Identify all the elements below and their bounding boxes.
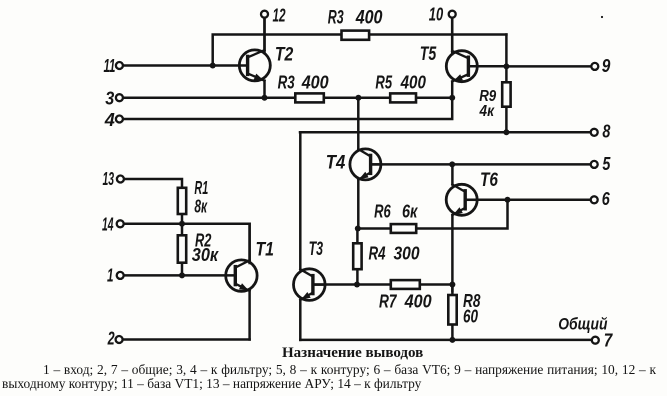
svg-text:5: 5 xyxy=(602,154,611,174)
svg-text:11: 11 xyxy=(104,56,116,76)
svg-text:3: 3 xyxy=(105,89,114,109)
svg-text:12: 12 xyxy=(273,5,286,25)
svg-text:60: 60 xyxy=(463,307,478,327)
svg-text:300: 300 xyxy=(394,244,420,264)
svg-text:400: 400 xyxy=(301,72,329,92)
svg-text:R5: R5 xyxy=(375,72,392,92)
svg-text:R6: R6 xyxy=(374,201,391,221)
svg-text:30к: 30к xyxy=(192,245,219,265)
svg-text:400: 400 xyxy=(400,72,426,92)
svg-text:8к: 8к xyxy=(194,196,207,216)
svg-text:R1: R1 xyxy=(194,178,208,198)
svg-text:Т4: Т4 xyxy=(326,153,346,174)
svg-text:4к: 4к xyxy=(479,103,495,120)
svg-text:8: 8 xyxy=(602,122,610,142)
svg-text:Т5: Т5 xyxy=(420,44,437,65)
svg-text:400: 400 xyxy=(404,291,432,311)
svg-text:10: 10 xyxy=(429,5,443,25)
svg-text:4: 4 xyxy=(104,110,115,130)
svg-text:R3: R3 xyxy=(328,8,344,29)
svg-text:400: 400 xyxy=(355,8,383,29)
svg-text:1: 1 xyxy=(107,265,114,285)
svg-text:6к: 6к xyxy=(402,201,418,221)
svg-text:Т3: Т3 xyxy=(309,239,324,260)
svg-text:Т1: Т1 xyxy=(256,240,275,261)
svg-text:13: 13 xyxy=(103,169,115,189)
svg-text:2: 2 xyxy=(107,329,115,349)
svg-text:6: 6 xyxy=(602,189,611,209)
svg-text:R7: R7 xyxy=(379,291,397,311)
svg-text:Общий: Общий xyxy=(558,314,608,333)
svg-text:R3: R3 xyxy=(278,72,295,92)
svg-text:Т6: Т6 xyxy=(480,170,498,191)
svg-text:9: 9 xyxy=(602,56,611,76)
svg-text:Т2: Т2 xyxy=(275,44,294,65)
svg-text:R4: R4 xyxy=(369,244,386,264)
svg-text:14: 14 xyxy=(102,215,114,235)
